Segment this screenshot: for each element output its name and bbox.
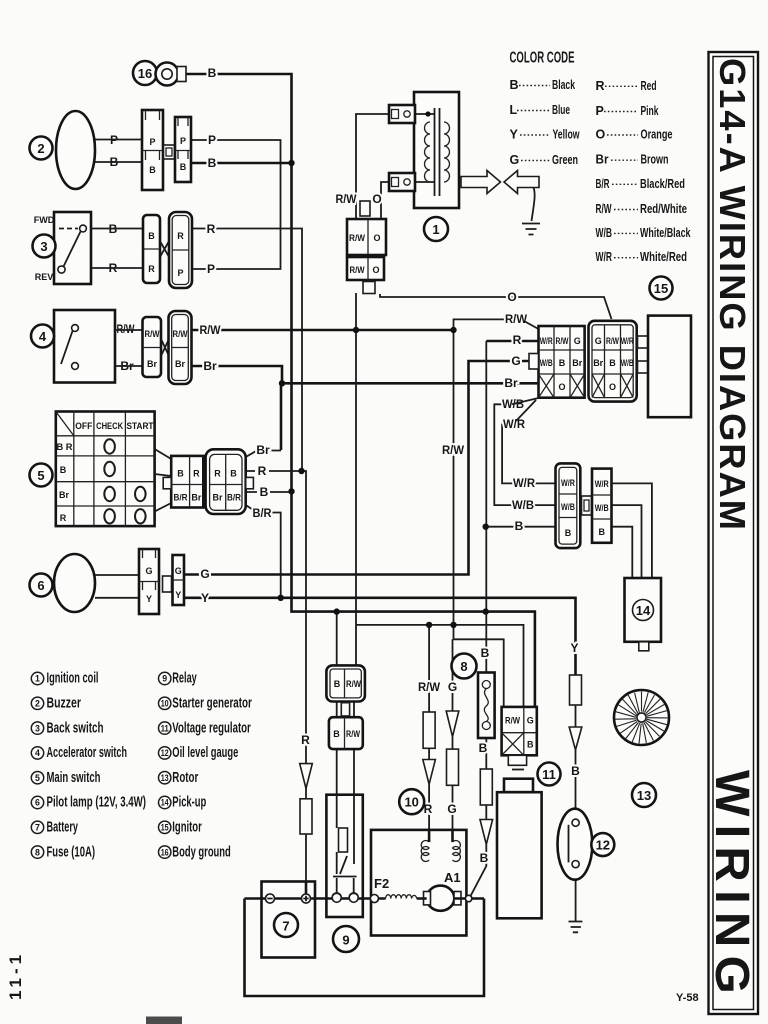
svg-text:G: G	[448, 680, 457, 694]
svg-text:B: B	[565, 528, 572, 538]
svg-text:White/Black: White/Black	[640, 226, 691, 240]
svg-text:11: 11	[161, 723, 169, 733]
svg-text:B: B	[230, 469, 237, 479]
svg-text:Voltage regulator: Voltage regulator	[172, 720, 251, 736]
svg-text:W/R: W/R	[595, 479, 609, 489]
svg-text:CHECK: CHECK	[96, 421, 123, 431]
svg-text:7: 7	[282, 919, 289, 934]
svg-text:F2: F2	[374, 876, 389, 891]
svg-text:P: P	[207, 262, 215, 276]
svg-text:O: O	[558, 382, 565, 392]
svg-text:R/W: R/W	[606, 336, 619, 346]
svg-text:16: 16	[161, 847, 169, 857]
svg-text:R/W: R/W	[505, 716, 520, 726]
svg-text:Oil level gauge: Oil level gauge	[172, 745, 238, 761]
svg-text:O: O	[507, 290, 516, 304]
svg-text:5: 5	[37, 468, 44, 483]
svg-text:W/B: W/B	[540, 358, 553, 368]
svg-text:1: 1	[432, 222, 439, 237]
svg-text:11: 11	[542, 767, 556, 782]
svg-text:R/W: R/W	[346, 729, 360, 739]
svg-text:13: 13	[161, 773, 169, 783]
svg-text:6: 6	[37, 578, 44, 593]
svg-text:B: B	[334, 679, 341, 689]
svg-text:P: P	[177, 268, 183, 278]
svg-text:4: 4	[39, 329, 47, 344]
svg-text:B: B	[148, 231, 155, 241]
svg-text:OFF: OFF	[75, 421, 92, 431]
svg-text:8: 8	[460, 659, 467, 674]
svg-text:B: B	[60, 465, 67, 475]
svg-text:R/W: R/W	[418, 680, 441, 694]
svg-text:O: O	[373, 233, 380, 243]
svg-text:R/W: R/W	[350, 265, 365, 275]
svg-text:B: B	[598, 527, 605, 537]
svg-text:R/W: R/W	[346, 679, 361, 689]
svg-text:14: 14	[636, 603, 651, 618]
svg-text:Y: Y	[201, 591, 209, 605]
svg-text:R: R	[596, 79, 605, 93]
svg-text:P: P	[149, 137, 155, 147]
svg-text:B/R: B/R	[227, 493, 241, 503]
svg-text:G: G	[510, 153, 520, 167]
svg-text:R/W: R/W	[117, 322, 136, 336]
svg-text:Orange: Orange	[641, 128, 673, 142]
svg-text:Br: Br	[256, 443, 270, 457]
svg-text:7: 7	[35, 823, 40, 833]
svg-text:W/B: W/B	[561, 502, 575, 512]
svg-text:3: 3	[35, 723, 40, 733]
svg-text:O: O	[372, 265, 379, 275]
svg-text:B: B	[480, 851, 489, 865]
svg-text:B: B	[479, 741, 488, 755]
svg-text:13: 13	[637, 788, 651, 803]
svg-text:R/W: R/W	[336, 192, 358, 206]
svg-text:W/B: W/B	[621, 358, 634, 368]
svg-text:10: 10	[404, 795, 418, 810]
svg-text:R: R	[258, 464, 267, 478]
svg-text:Br: Br	[212, 493, 222, 503]
svg-text:9: 9	[162, 674, 167, 684]
svg-text:W/R: W/R	[540, 336, 553, 346]
svg-text:Blue: Blue	[552, 103, 570, 117]
svg-text:Br: Br	[191, 493, 201, 503]
svg-text:Y: Y	[175, 590, 181, 600]
svg-text:B: B	[609, 358, 616, 368]
svg-text:G14-A WIRING DIAGRAM: G14-A WIRING DIAGRAM	[712, 58, 753, 532]
svg-text:W/B: W/B	[596, 226, 613, 240]
svg-text:11-1: 11-1	[6, 951, 25, 1000]
svg-text:Starter generator: Starter generator	[172, 696, 252, 712]
svg-text:O: O	[596, 128, 606, 142]
svg-text:9: 9	[342, 933, 349, 948]
svg-text:Accelerator switch: Accelerator switch	[47, 745, 128, 761]
svg-text:G: G	[511, 354, 520, 368]
svg-text:W/R: W/R	[621, 336, 634, 346]
svg-text:R: R	[301, 733, 310, 747]
svg-text:Red: Red	[641, 79, 657, 93]
svg-text:Br: Br	[504, 376, 518, 390]
svg-text:White/Red: White/Red	[640, 250, 687, 264]
svg-text:14: 14	[161, 798, 169, 808]
svg-text:B: B	[208, 66, 217, 80]
svg-text:W/R: W/R	[513, 476, 535, 490]
svg-text:B: B	[149, 165, 156, 175]
svg-text:B: B	[481, 646, 490, 660]
svg-text:B: B	[177, 469, 184, 479]
svg-text:5: 5	[35, 773, 40, 783]
svg-text:Relay: Relay	[172, 671, 197, 687]
svg-text:R/W: R/W	[556, 336, 569, 346]
svg-text:W/B: W/B	[595, 503, 609, 513]
svg-text:Pink: Pink	[641, 104, 659, 118]
svg-text:Black/Red: Black/Red	[640, 177, 685, 191]
svg-text:2: 2	[37, 141, 44, 156]
svg-text:G: G	[595, 336, 602, 346]
svg-text:REV: REV	[35, 272, 54, 282]
svg-text:B: B	[260, 485, 269, 499]
svg-text:G: G	[200, 567, 209, 581]
svg-text:B: B	[333, 729, 340, 739]
svg-text:6: 6	[35, 798, 40, 808]
svg-text:START: START	[127, 421, 154, 431]
svg-text:Y-58: Y-58	[676, 992, 699, 1004]
svg-text:Buzzer: Buzzer	[47, 696, 82, 712]
svg-text:1: 1	[35, 674, 40, 684]
svg-text:B R: B R	[57, 442, 74, 452]
svg-text:R: R	[513, 333, 522, 347]
svg-text:Pilot lamp (12V, 3.4W): Pilot lamp (12V, 3.4W)	[47, 795, 147, 811]
svg-text:10: 10	[161, 699, 169, 709]
svg-text:COLOR CODE: COLOR CODE	[510, 50, 575, 67]
svg-text:12: 12	[161, 748, 169, 758]
svg-text:W/R: W/R	[561, 478, 575, 488]
svg-text:Y: Y	[510, 128, 519, 142]
svg-text:G: G	[175, 566, 182, 576]
svg-text:R/W: R/W	[505, 312, 528, 326]
svg-text:Black: Black	[552, 78, 575, 92]
svg-text:FWD: FWD	[34, 215, 55, 225]
svg-text:15: 15	[161, 823, 169, 833]
svg-text:W/B: W/B	[512, 498, 534, 512]
svg-text:WIRING: WIRING	[705, 770, 758, 1002]
svg-text:P: P	[596, 104, 604, 118]
svg-text:4: 4	[35, 748, 40, 758]
svg-text:R/W: R/W	[596, 202, 612, 216]
svg-text:W/R: W/R	[596, 250, 613, 264]
svg-text:R: R	[177, 231, 184, 241]
svg-text:Red/White: Red/White	[640, 202, 687, 216]
svg-text:R: R	[148, 264, 155, 274]
svg-text:B: B	[180, 162, 187, 172]
svg-text:3: 3	[40, 239, 47, 254]
svg-text:R: R	[193, 469, 200, 479]
svg-text:R/W: R/W	[200, 323, 222, 337]
svg-text:Brown: Brown	[641, 153, 669, 167]
svg-text:Y: Y	[146, 594, 152, 604]
svg-text:W/R: W/R	[503, 417, 525, 431]
svg-text:G: G	[527, 716, 534, 726]
svg-text:B/R: B/R	[253, 506, 272, 520]
svg-text:G: G	[574, 336, 581, 346]
svg-text:Br: Br	[203, 359, 217, 373]
svg-text:P: P	[180, 136, 186, 146]
svg-text:Br: Br	[59, 490, 69, 500]
svg-text:R/W: R/W	[145, 329, 160, 339]
svg-text:R: R	[60, 513, 67, 523]
svg-text:15: 15	[654, 281, 668, 296]
svg-text:2: 2	[35, 699, 40, 709]
svg-text:B: B	[515, 519, 524, 533]
svg-text:Green: Green	[552, 153, 578, 167]
svg-text:Rotor: Rotor	[172, 770, 198, 786]
svg-text:Main switch: Main switch	[47, 770, 101, 786]
svg-text:B: B	[571, 764, 580, 778]
svg-text:L: L	[510, 103, 518, 117]
svg-text:Br: Br	[147, 359, 157, 369]
svg-text:G: G	[447, 802, 456, 816]
svg-text:Br: Br	[175, 359, 185, 369]
svg-text:B: B	[527, 740, 534, 750]
svg-text:16: 16	[138, 66, 152, 81]
svg-text:B: B	[510, 78, 519, 92]
svg-text:O: O	[372, 192, 381, 206]
svg-text:Br: Br	[572, 358, 582, 368]
svg-text:Back switch: Back switch	[47, 720, 104, 736]
svg-text:Y: Y	[570, 641, 578, 655]
svg-text:Br: Br	[596, 153, 609, 167]
svg-text:B/R: B/R	[174, 493, 188, 503]
svg-text:Pick-up: Pick-up	[172, 795, 206, 811]
svg-text:R: R	[207, 222, 216, 236]
svg-text:Ignitor: Ignitor	[172, 820, 202, 836]
svg-text:Br: Br	[593, 358, 603, 368]
svg-text:A1: A1	[444, 870, 461, 885]
svg-text:R/W: R/W	[173, 329, 188, 339]
svg-text:P: P	[208, 133, 216, 147]
svg-text:Fuse (10A): Fuse (10A)	[47, 844, 96, 860]
svg-text:G: G	[145, 566, 152, 576]
svg-text:B: B	[559, 358, 566, 368]
svg-text:Body ground: Body ground	[172, 844, 231, 860]
svg-text:Ignition coil: Ignition coil	[47, 671, 99, 687]
svg-text:Yellow: Yellow	[553, 128, 580, 142]
svg-text:Battery: Battery	[47, 820, 79, 836]
svg-text:R: R	[214, 469, 221, 479]
svg-text:B: B	[208, 156, 217, 170]
svg-text:O: O	[609, 382, 616, 392]
svg-text:B/R: B/R	[596, 177, 610, 191]
svg-text:R/W: R/W	[442, 443, 465, 457]
svg-text:12: 12	[596, 838, 610, 853]
svg-text:R/W: R/W	[349, 233, 365, 243]
svg-text:8: 8	[35, 847, 40, 857]
